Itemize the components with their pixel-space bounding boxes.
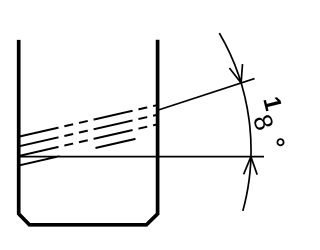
beam line 4b (second solid dash) [96, 139, 136, 148]
emergent ray at 18 degrees [158, 79, 255, 111]
arrowhead on arc at horizontal line crossing [244, 157, 258, 175]
horizontal reference line [19, 156, 264, 158]
dimension arc [219, 33, 251, 211]
beam line 3 [20, 124, 158, 156]
tank (container outline) [19, 40, 158, 225]
angle label degree symbol [277, 139, 283, 145]
beam line 2 [20, 115, 158, 147]
beam line 1 (top, in water) [20, 105, 158, 137]
beam line 4a (bottom stub) [20, 156, 60, 165]
arrowhead on arc at ray crossing [229, 64, 242, 83]
